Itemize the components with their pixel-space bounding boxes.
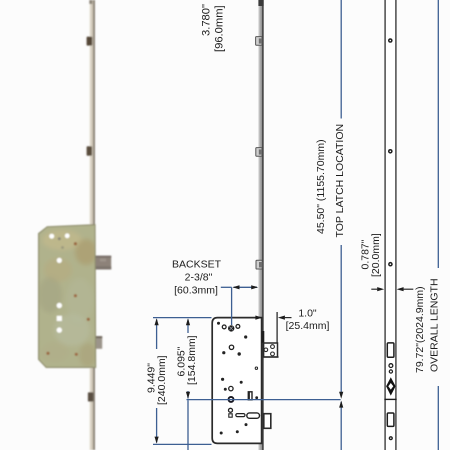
backset arrow right <box>251 285 258 289</box>
svg-text:79.72"(2024.9mm): 79.72"(2024.9mm) <box>414 286 426 373</box>
dimension line 79.72in upper segment <box>437 0 439 268</box>
extension line bottom of case <box>153 443 212 445</box>
black bolt on rail <box>262 331 265 343</box>
cylinder hole <box>229 397 234 402</box>
right tab below <box>264 414 271 429</box>
case screw holes <box>222 325 257 413</box>
drawing clip 3 <box>256 260 262 269</box>
svg-text:1.0": 1.0" <box>298 308 317 320</box>
photo latch bolt <box>95 256 111 270</box>
svg-text:3.780": 3.780" <box>201 4 213 36</box>
1.0 arrow left <box>278 316 285 320</box>
svg-text:[25.4mm]: [25.4mm] <box>286 320 330 332</box>
cylinder centerline horizontal <box>187 399 341 401</box>
svg-text:[96.0mm]: [96.0mm] <box>214 5 226 52</box>
lower dim arrow up <box>339 401 343 408</box>
drawing rail top cap <box>258 0 263 6</box>
svg-text:45.50" (1155.70mm): 45.50" (1155.70mm) <box>315 139 327 234</box>
drawing rail <box>258 0 263 450</box>
dimension line 79.72in lower segment <box>437 386 439 450</box>
photo clip 2 <box>87 146 92 156</box>
two rings <box>389 364 393 368</box>
strip screw holes <box>388 38 393 266</box>
svg-text:2-3/8": 2-3/8" <box>185 271 213 283</box>
black dimension arrows <box>155 285 404 443</box>
6.095 arrow up <box>186 318 190 325</box>
svg-text:OVERALL LENGTH: OVERALL LENGTH <box>429 278 441 372</box>
dimension line 6.095in lower segment <box>187 391 189 399</box>
dimension line 45.50in middle segment <box>340 245 342 396</box>
dimension line below top latch location <box>340 402 342 450</box>
photo clip 1 <box>87 37 93 46</box>
0.787 arrow left <box>397 287 404 291</box>
strip cutout 1 <box>387 343 394 357</box>
strip cutout 2 <box>387 413 394 426</box>
case rivet dots <box>217 322 258 435</box>
0.787 dim tails <box>371 288 378 290</box>
backset leader horizontal <box>221 286 232 288</box>
backset leader vertical to hub <box>231 287 233 325</box>
photo rail <box>90 0 95 450</box>
photo clip 3 <box>88 392 93 401</box>
dimension line 9.449in lower segment <box>156 408 158 443</box>
svg-text:BACKSET: BACKSET <box>172 258 222 270</box>
svg-text:TOP LATCH LOCATION: TOP LATCH LOCATION <box>334 124 346 238</box>
spindle hub <box>228 325 234 331</box>
small slot <box>236 414 245 417</box>
9.449 arrow up <box>155 318 159 325</box>
small vertical rect near cylinder <box>248 392 252 400</box>
photo lock case <box>39 225 96 368</box>
photo bottom tab <box>95 336 102 349</box>
keeper extension line <box>276 312 278 343</box>
photo rivets <box>74 242 77 245</box>
45.50 arrow down <box>339 392 343 399</box>
joint line <box>384 398 396 400</box>
drawing clip 1 <box>256 37 263 46</box>
1.0 arrow right <box>255 316 262 320</box>
svg-text:[154.8mm]: [154.8mm] <box>186 335 198 385</box>
dimension line 9.449in upper segment <box>156 320 158 350</box>
1.0 dim tails (black) <box>284 317 292 319</box>
backset arrow left <box>233 285 240 289</box>
keeper box <box>264 343 278 357</box>
svg-text:[240.0mm]: [240.0mm] <box>156 355 168 405</box>
diamond <box>386 377 396 395</box>
photo holes <box>49 234 54 239</box>
dimension line 45.50in top segment <box>340 0 342 119</box>
extension line top of case <box>153 317 212 319</box>
0.787 arrow right <box>377 287 384 291</box>
svg-text:[60.3mm]: [60.3mm] <box>174 284 218 296</box>
dimension line below cylinder centerline <box>187 400 189 450</box>
drawing clip 2 <box>256 148 262 157</box>
bottom hole <box>389 436 393 440</box>
6.095 arrow down <box>186 392 190 399</box>
dimension line 6.095in upper segment <box>187 320 189 334</box>
9.449 arrow down <box>155 437 159 444</box>
big slot <box>247 413 260 418</box>
mottled patches <box>38 230 97 367</box>
backset arrow line <box>234 286 258 288</box>
small square <box>229 414 232 417</box>
lock case body <box>212 318 261 444</box>
svg-text:[20.0mm]: [20.0mm] <box>370 233 382 277</box>
